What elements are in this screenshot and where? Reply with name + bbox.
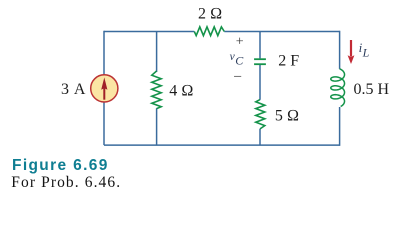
svg-text:0.5 H: 0.5 H (354, 81, 390, 98)
svg-text:4 Ω: 4 Ω (169, 82, 193, 99)
current source I1 3A circle (91, 75, 118, 102)
svg-text:Figure 6.69: Figure 6.69 (12, 157, 109, 174)
svg-text:L: L (362, 46, 370, 60)
wire top-right segment (224, 31, 339, 33)
svg-text:+: + (236, 34, 244, 49)
resistor R 2ohm (horizontal, top) (194, 27, 224, 36)
svg-text:3 A: 3 A (61, 81, 86, 98)
svg-text:2 F: 2 F (278, 53, 299, 70)
inductor L 0.5H coil (331, 69, 345, 107)
svg-text:C: C (235, 54, 244, 68)
wire bottom segment (104, 144, 340, 146)
wire right branch lower (339, 107, 341, 146)
iL current arrow (down, red) (350, 40, 352, 57)
wire top-left segment (104, 31, 194, 33)
svg-text:2 Ω: 2 Ω (198, 5, 222, 22)
capacitor C 2F plates (254, 58, 266, 60)
wire right branch upper (339, 31, 341, 69)
wire branch-3 middle (259, 65, 261, 100)
current source arrow (up) (103, 88, 105, 100)
wire branch-2 lower (156, 108, 158, 145)
wire branch-3 lower (259, 129, 261, 145)
svg-text:For Prob. 6.46.: For Prob. 6.46. (11, 174, 121, 191)
wire left branch lower (103, 102, 105, 145)
svg-text:5 Ω: 5 Ω (275, 107, 299, 124)
wire branch-2 upper (156, 32, 158, 73)
resistor R 5ohm (vertical, branch 3) (256, 100, 265, 129)
resistor R 4ohm (vertical, branch 2) (152, 71, 161, 109)
svg-text:–: – (233, 68, 242, 83)
wire branch-3 upper (259, 32, 261, 59)
wire left branch upper (103, 31, 105, 75)
